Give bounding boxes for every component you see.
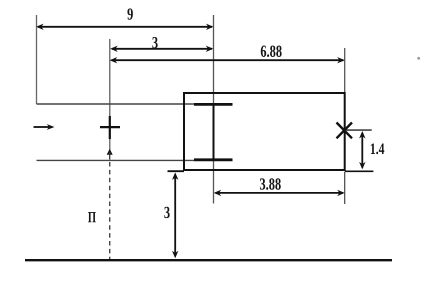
- image mark X: [337, 123, 353, 139]
- lens cross horizontal bar: [100, 126, 120, 128]
- label 3.88: [260, 178, 281, 190]
- extension line center vertical x=213.5: [213, 15, 215, 204]
- extension line x=110 upper: [109, 39, 111, 150]
- extension line left vertical x=36.5: [36, 15, 38, 104]
- focal plane up arrowhead: [107, 149, 113, 155]
- dimension line 3.88: [216, 192, 344, 194]
- dimension line 9: [38, 26, 212, 28]
- dimension line 1.4 vertical: [361, 133, 363, 168]
- label 3 bottom: [164, 207, 169, 218]
- extension line from X to 1.4 dim: [345, 129, 372, 131]
- vertical dimension 3 bottom: [174, 175, 176, 256]
- extension x=344.7 below box: [344, 172, 346, 204]
- object arrow: [34, 126, 50, 128]
- ground line: [25, 259, 392, 261]
- label 6.88: [261, 45, 282, 57]
- plate top bar: [194, 103, 233, 106]
- thin line y=104 from left to box: [37, 103, 195, 105]
- label P (Cyrillic Pe): [88, 212, 96, 222]
- box bottom extension stub right: [345, 170, 374, 172]
- label 3 top: [152, 37, 157, 48]
- dimension line 3 top: [112, 48, 212, 50]
- stray dot: [417, 57, 420, 60]
- label 9: [127, 8, 132, 19]
- lens cross vertical bar: [109, 116, 111, 139]
- thin line y=160.5 from left to box: [37, 159, 195, 161]
- dimension line 6.88: [112, 59, 344, 61]
- dashed plane line P: [109, 162, 111, 260]
- box (camera body): [184, 93, 345, 170]
- box bottom extension stub left: [168, 170, 185, 172]
- label 1.4: [371, 143, 384, 154]
- plate vertical connector: [213, 104, 215, 160]
- extension line x=344.7 above box: [344, 48, 346, 93]
- plate bottom bar: [194, 158, 233, 161]
